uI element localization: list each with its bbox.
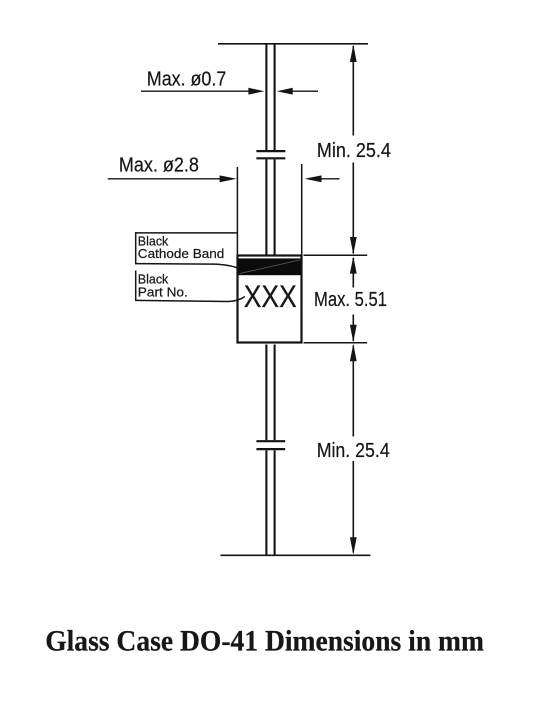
leader line to part number xyxy=(135,297,245,302)
dimension Max. ø2.8 right arrow line xyxy=(318,178,340,180)
svg-text:Max. ø2.8: Max. ø2.8 xyxy=(119,155,199,177)
diode body outline xyxy=(238,256,302,343)
dimension Max. ø0.7 left arrow line xyxy=(141,90,250,92)
arrowhead up (top Min 25.4, top) xyxy=(350,45,357,62)
vertical dimension line segments at x=353.3 xyxy=(352,46,354,553)
svg-text:XXX: XXX xyxy=(244,278,297,314)
dimension Max. ø2.8 left arrowhead xyxy=(220,175,237,182)
label box Black Cathode Band: top line xyxy=(135,232,238,234)
svg-text:Min. 25.4: Min. 25.4 xyxy=(317,140,391,162)
arrowhead down (top Min 25.4, bottom) xyxy=(350,237,357,254)
body left edge extension line xyxy=(236,167,238,255)
dimension Max. ø0.7 right arrowhead xyxy=(277,88,293,95)
dimension Max. ø2.8 left arrow line xyxy=(108,178,222,180)
arrowhead up (Max 5.51, top) xyxy=(350,256,357,273)
label box Black Part No.: left line xyxy=(135,271,137,302)
top lead end extension line xyxy=(218,43,368,45)
black cathode band xyxy=(239,258,301,275)
arrowhead down (Max 5.51, bottom) xyxy=(350,325,357,342)
svg-text:Max. 5.51: Max. 5.51 xyxy=(314,289,387,311)
body right edge extension line xyxy=(301,164,303,255)
arrowhead down (bottom Min 25.4, bottom) xyxy=(350,537,357,554)
svg-text:Part No.: Part No. xyxy=(138,284,188,299)
top lead break symbol xyxy=(256,151,285,158)
cathode band highlight diagonal xyxy=(240,260,301,274)
top lead wire xyxy=(266,45,274,256)
arrowhead up (bottom Min 25.4, top) xyxy=(350,344,357,361)
svg-text:Min. 25.4: Min. 25.4 xyxy=(317,440,390,462)
bottom lead break symbol xyxy=(256,441,285,449)
label box Black Cathode Band: left line xyxy=(135,232,137,264)
bottom lead wire xyxy=(266,345,274,555)
body top extension line (to dimension line) xyxy=(304,254,368,256)
svg-text:Max. ø0.7: Max. ø0.7 xyxy=(147,68,227,90)
dimension Max. ø0.7 left arrowhead xyxy=(248,88,264,95)
svg-text:Glass Case DO-41 Dimensions in: Glass Case DO-41 Dimensions in mm xyxy=(45,626,484,658)
leader line to cathode band xyxy=(135,264,239,269)
body bottom extension line (to dimension line) xyxy=(304,342,368,344)
dimension Max. ø0.7 right arrow line xyxy=(291,90,318,92)
dimension Max. ø2.8 right arrowhead xyxy=(305,175,322,182)
svg-text:Cathode Band: Cathode Band xyxy=(138,246,225,261)
bottom lead end extension line xyxy=(220,554,370,556)
